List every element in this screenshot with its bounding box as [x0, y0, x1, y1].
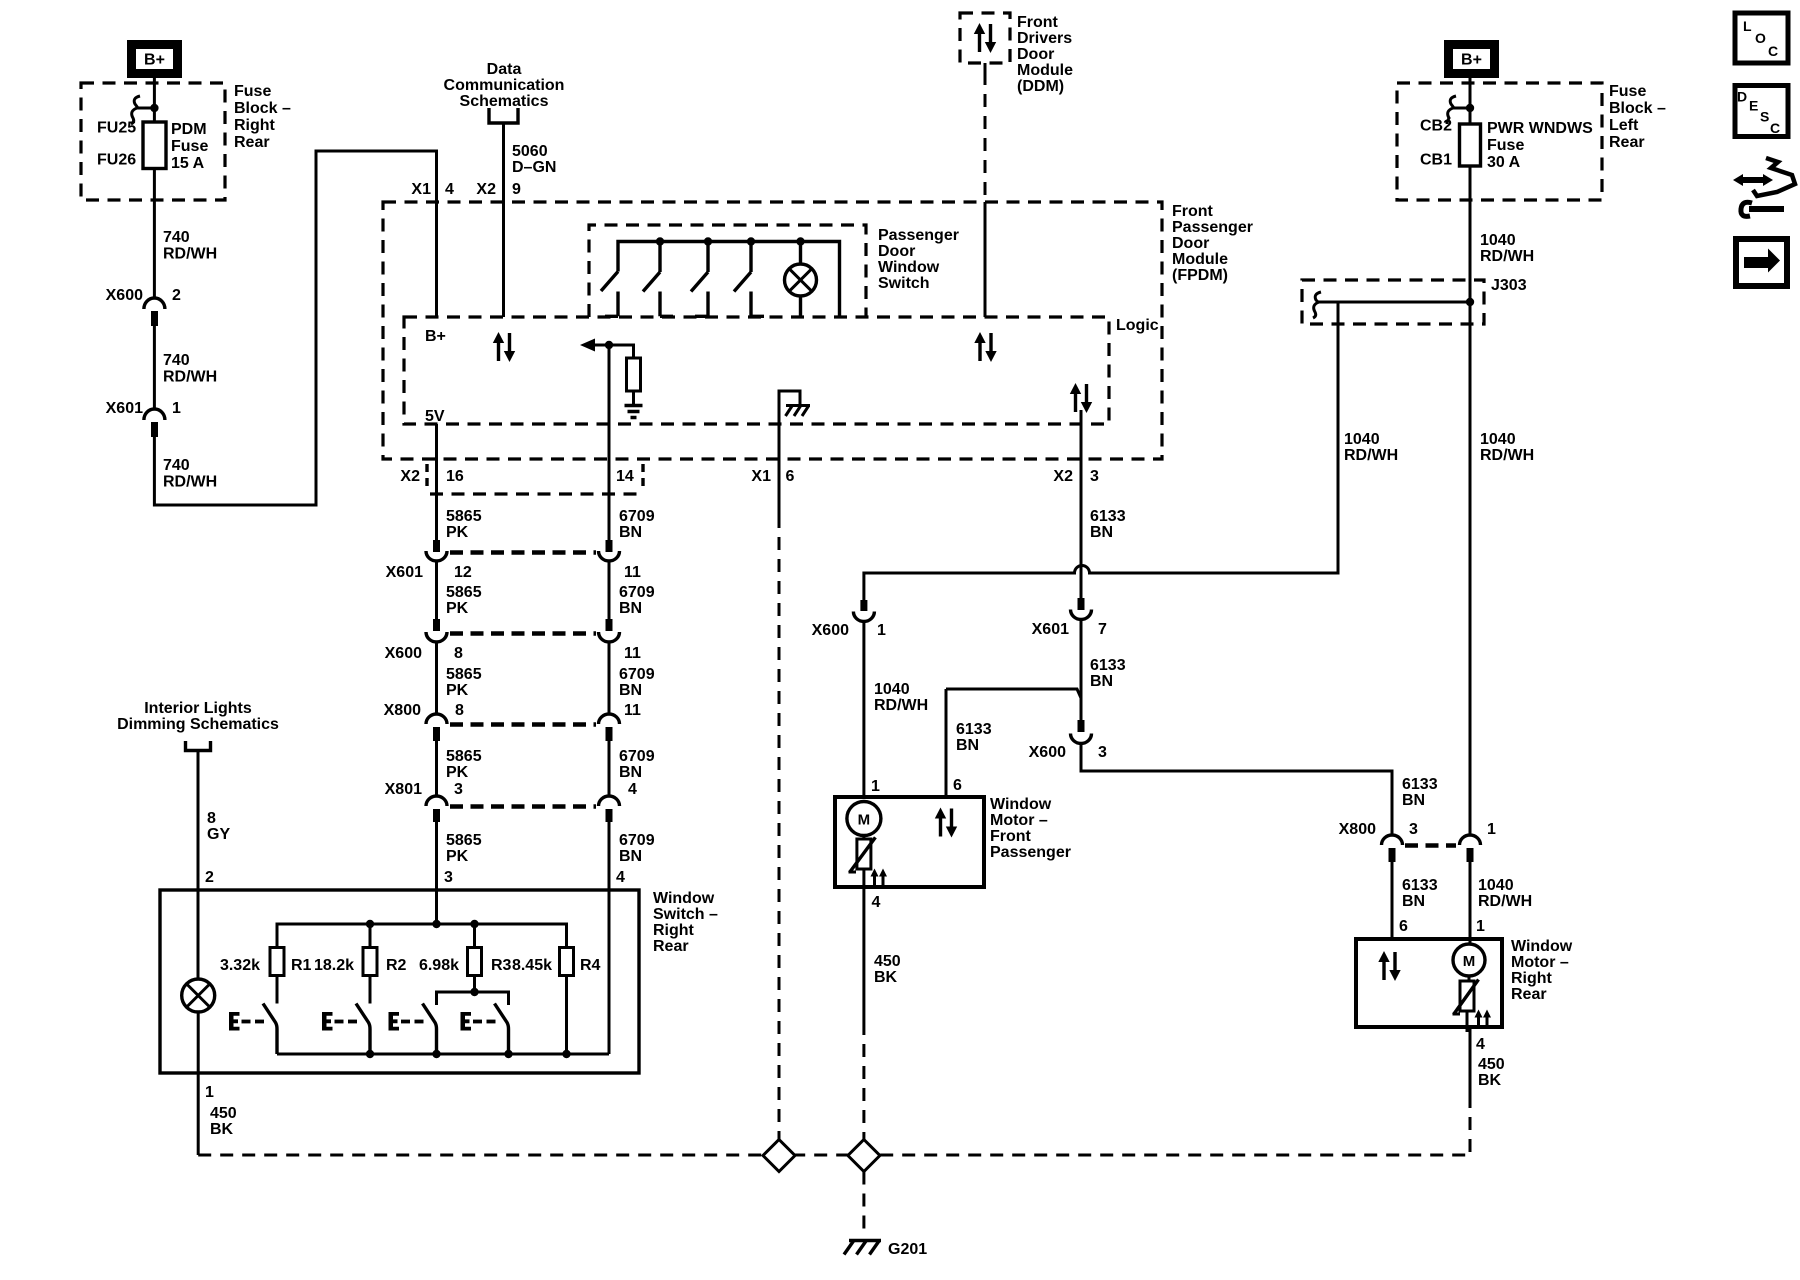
svg-text:Drivers: Drivers — [1017, 30, 1072, 47]
svg-text:6.98k: 6.98k — [419, 957, 459, 974]
svg-text:Door: Door — [1017, 46, 1054, 63]
svg-text:G201: G201 — [888, 1241, 927, 1258]
svg-text:Right: Right — [653, 922, 695, 939]
svg-text:X2: X2 — [1053, 468, 1073, 485]
svg-text:M: M — [1463, 953, 1476, 970]
svg-text:1040: 1040 — [1480, 431, 1516, 448]
svg-text:R4: R4 — [580, 957, 601, 974]
svg-text:1040: 1040 — [1344, 431, 1380, 448]
svg-text:4: 4 — [628, 781, 637, 798]
svg-text:5865: 5865 — [446, 584, 482, 601]
svg-text:X600: X600 — [106, 287, 143, 304]
svg-text:RD/WH: RD/WH — [1480, 447, 1534, 464]
svg-text:6133: 6133 — [1090, 657, 1126, 674]
svg-text:Module: Module — [1017, 62, 1073, 79]
svg-text:PK: PK — [446, 682, 469, 699]
svg-text:R3: R3 — [491, 957, 512, 974]
svg-text:3.32k: 3.32k — [220, 957, 260, 974]
svg-text:6: 6 — [786, 468, 795, 485]
svg-text:CB2: CB2 — [1420, 118, 1452, 135]
svg-text:1040: 1040 — [1480, 232, 1516, 249]
svg-text:6133: 6133 — [1090, 508, 1126, 525]
svg-text:2: 2 — [172, 287, 181, 304]
svg-text:6709: 6709 — [619, 748, 655, 765]
svg-text:Rear: Rear — [653, 938, 689, 955]
svg-text:S: S — [1760, 109, 1769, 125]
svg-text:Front: Front — [990, 828, 1032, 845]
svg-text:C: C — [1768, 43, 1778, 59]
svg-text:Module: Module — [1172, 251, 1228, 268]
svg-text:BN: BN — [619, 600, 642, 617]
svg-text:8: 8 — [207, 810, 216, 827]
svg-text:Passenger: Passenger — [878, 227, 959, 244]
svg-text:Right: Right — [1511, 970, 1553, 987]
svg-text:11: 11 — [624, 702, 641, 719]
svg-text:5865: 5865 — [446, 508, 482, 525]
svg-text:BN: BN — [619, 764, 642, 781]
svg-text:740: 740 — [163, 457, 190, 474]
svg-text:BN: BN — [1090, 673, 1113, 690]
svg-text:5865: 5865 — [446, 666, 482, 683]
svg-text:Fuse: Fuse — [1609, 83, 1646, 100]
svg-text:RD/WH: RD/WH — [874, 697, 928, 714]
svg-text:8: 8 — [454, 645, 463, 662]
svg-text:BN: BN — [619, 848, 642, 865]
svg-text:450: 450 — [874, 953, 901, 970]
svg-text:B+: B+ — [1461, 52, 1482, 69]
svg-text:RD/WH: RD/WH — [163, 369, 217, 386]
svg-text:PK: PK — [446, 600, 469, 617]
svg-text:4: 4 — [616, 869, 625, 886]
svg-text:D–GN: D–GN — [512, 159, 556, 176]
svg-text:D: D — [1737, 89, 1747, 105]
svg-text:E: E — [1749, 98, 1758, 114]
svg-text:Rear: Rear — [234, 134, 270, 151]
svg-text:X601: X601 — [106, 400, 143, 417]
svg-text:740: 740 — [163, 352, 190, 369]
svg-text:PK: PK — [446, 764, 469, 781]
svg-text:Window: Window — [653, 890, 715, 907]
svg-text:1: 1 — [877, 622, 886, 639]
svg-text:FU26: FU26 — [97, 152, 136, 169]
svg-text:R1: R1 — [291, 957, 312, 974]
svg-text:X2: X2 — [476, 181, 496, 198]
svg-text:12: 12 — [454, 564, 472, 581]
svg-text:8: 8 — [455, 702, 464, 719]
svg-text:5865: 5865 — [446, 748, 482, 765]
svg-text:8.45k: 8.45k — [512, 957, 552, 974]
svg-text:5865: 5865 — [446, 832, 482, 849]
svg-text:R2: R2 — [386, 957, 407, 974]
svg-text:J303: J303 — [1491, 277, 1527, 294]
svg-text:7: 7 — [1098, 621, 1107, 638]
svg-text:1: 1 — [1476, 918, 1485, 935]
svg-text:B+: B+ — [425, 328, 446, 345]
svg-text:X2: X2 — [400, 468, 420, 485]
svg-text:Left: Left — [1609, 117, 1639, 134]
svg-text:PWR WNDWS: PWR WNDWS — [1487, 120, 1593, 137]
svg-text:L: L — [1743, 18, 1752, 34]
svg-text:9: 9 — [512, 181, 521, 198]
svg-text:Door: Door — [878, 243, 915, 260]
svg-text:Interior Lights: Interior Lights — [144, 700, 252, 717]
svg-text:3: 3 — [1409, 821, 1418, 838]
svg-text:Fuse: Fuse — [1487, 137, 1524, 154]
svg-text:(FPDM): (FPDM) — [1172, 267, 1228, 284]
svg-text:RD/WH: RD/WH — [163, 246, 217, 263]
svg-text:1040: 1040 — [874, 681, 910, 698]
svg-text:X601: X601 — [1032, 621, 1069, 638]
svg-text:B+: B+ — [144, 52, 165, 69]
svg-text:BN: BN — [619, 682, 642, 699]
svg-text:6709: 6709 — [619, 584, 655, 601]
svg-text:X800: X800 — [384, 702, 421, 719]
svg-text:RD/WH: RD/WH — [163, 474, 217, 491]
svg-text:BN: BN — [1090, 524, 1113, 541]
svg-text:BK: BK — [1478, 1072, 1502, 1089]
svg-text:X1: X1 — [411, 181, 431, 198]
svg-text:6: 6 — [953, 777, 962, 794]
svg-text:BN: BN — [1402, 893, 1425, 910]
svg-text:Door: Door — [1172, 235, 1209, 252]
svg-text:3: 3 — [444, 869, 453, 886]
svg-text:C: C — [1770, 120, 1780, 136]
svg-text:1040: 1040 — [1478, 877, 1514, 894]
svg-text:X801: X801 — [385, 781, 422, 798]
svg-text:BK: BK — [210, 1121, 234, 1138]
svg-text:GY: GY — [207, 826, 230, 843]
svg-text:Logic: Logic — [1116, 317, 1159, 334]
svg-text:6709: 6709 — [619, 666, 655, 683]
svg-text:PDM: PDM — [171, 121, 207, 138]
svg-text:6709: 6709 — [619, 832, 655, 849]
svg-text:Passenger: Passenger — [990, 844, 1071, 861]
svg-text:BN: BN — [1402, 792, 1425, 809]
svg-text:18.2k: 18.2k — [314, 957, 354, 974]
svg-text:1: 1 — [172, 400, 181, 417]
svg-text:Rear: Rear — [1511, 986, 1547, 1003]
svg-text:450: 450 — [1478, 1056, 1505, 1073]
svg-text:Data: Data — [487, 61, 522, 78]
svg-text:Window: Window — [1511, 938, 1573, 955]
svg-text:Dimming Schematics: Dimming Schematics — [117, 716, 279, 733]
svg-text:Right: Right — [234, 117, 276, 134]
svg-text:Fuse: Fuse — [171, 138, 208, 155]
svg-text:2: 2 — [205, 869, 214, 886]
svg-text:6709: 6709 — [619, 508, 655, 525]
svg-text:11: 11 — [624, 564, 641, 581]
svg-text:BN: BN — [956, 737, 979, 754]
svg-text:5060: 5060 — [512, 143, 548, 160]
svg-text:Rear: Rear — [1609, 134, 1645, 151]
svg-text:X800: X800 — [1339, 821, 1376, 838]
svg-text:Switch –: Switch – — [653, 906, 718, 923]
svg-text:4: 4 — [1476, 1036, 1485, 1053]
svg-text:M: M — [858, 812, 871, 829]
svg-text:450: 450 — [210, 1105, 237, 1122]
svg-text:O: O — [1755, 30, 1766, 46]
svg-text:BK: BK — [874, 969, 898, 986]
svg-text:RD/WH: RD/WH — [1478, 893, 1532, 910]
svg-text:Fuse: Fuse — [234, 83, 271, 100]
svg-text:Front: Front — [1017, 14, 1059, 31]
svg-text:RD/WH: RD/WH — [1480, 248, 1534, 265]
svg-text:Motor –: Motor – — [1511, 954, 1569, 971]
svg-text:Window: Window — [990, 796, 1052, 813]
svg-text:14: 14 — [616, 468, 634, 485]
svg-text:Communication: Communication — [444, 77, 565, 94]
svg-text:1: 1 — [205, 1084, 214, 1101]
svg-text:16: 16 — [446, 468, 464, 485]
svg-text:PK: PK — [446, 848, 469, 865]
svg-text:11: 11 — [624, 645, 641, 662]
svg-text:1: 1 — [871, 778, 880, 795]
svg-text:X600: X600 — [812, 622, 849, 639]
svg-text:Front: Front — [1172, 203, 1214, 220]
svg-text:(DDM): (DDM) — [1017, 78, 1064, 95]
svg-text:6: 6 — [1399, 918, 1408, 935]
svg-text:FU25: FU25 — [97, 120, 136, 137]
svg-text:Window: Window — [878, 259, 940, 276]
svg-text:Passenger: Passenger — [1172, 219, 1253, 236]
svg-text:Block –: Block – — [1609, 100, 1666, 117]
svg-text:5V: 5V — [425, 408, 445, 425]
svg-text:4: 4 — [445, 181, 454, 198]
svg-text:30 A: 30 A — [1487, 154, 1521, 171]
svg-text:X601: X601 — [386, 564, 423, 581]
svg-text:1: 1 — [1487, 821, 1496, 838]
svg-text:15 A: 15 A — [171, 155, 205, 172]
svg-text:X600: X600 — [385, 645, 422, 662]
svg-text:BN: BN — [619, 524, 642, 541]
svg-text:740: 740 — [163, 229, 190, 246]
svg-text:3: 3 — [1098, 744, 1107, 761]
svg-text:X600: X600 — [1029, 744, 1066, 761]
svg-text:PK: PK — [446, 524, 469, 541]
svg-text:4: 4 — [872, 894, 881, 911]
svg-text:6133: 6133 — [1402, 877, 1438, 894]
svg-text:3: 3 — [1090, 468, 1099, 485]
svg-text:CB1: CB1 — [1420, 152, 1452, 169]
svg-text:X1: X1 — [751, 468, 771, 485]
svg-text:Block –: Block – — [234, 100, 291, 117]
svg-text:Motor –: Motor – — [990, 812, 1048, 829]
svg-text:6133: 6133 — [956, 721, 992, 738]
svg-text:Schematics: Schematics — [460, 93, 549, 110]
svg-text:6133: 6133 — [1402, 776, 1438, 793]
svg-text:3: 3 — [454, 781, 463, 798]
svg-text:Switch: Switch — [878, 275, 930, 292]
svg-text:RD/WH: RD/WH — [1344, 447, 1398, 464]
